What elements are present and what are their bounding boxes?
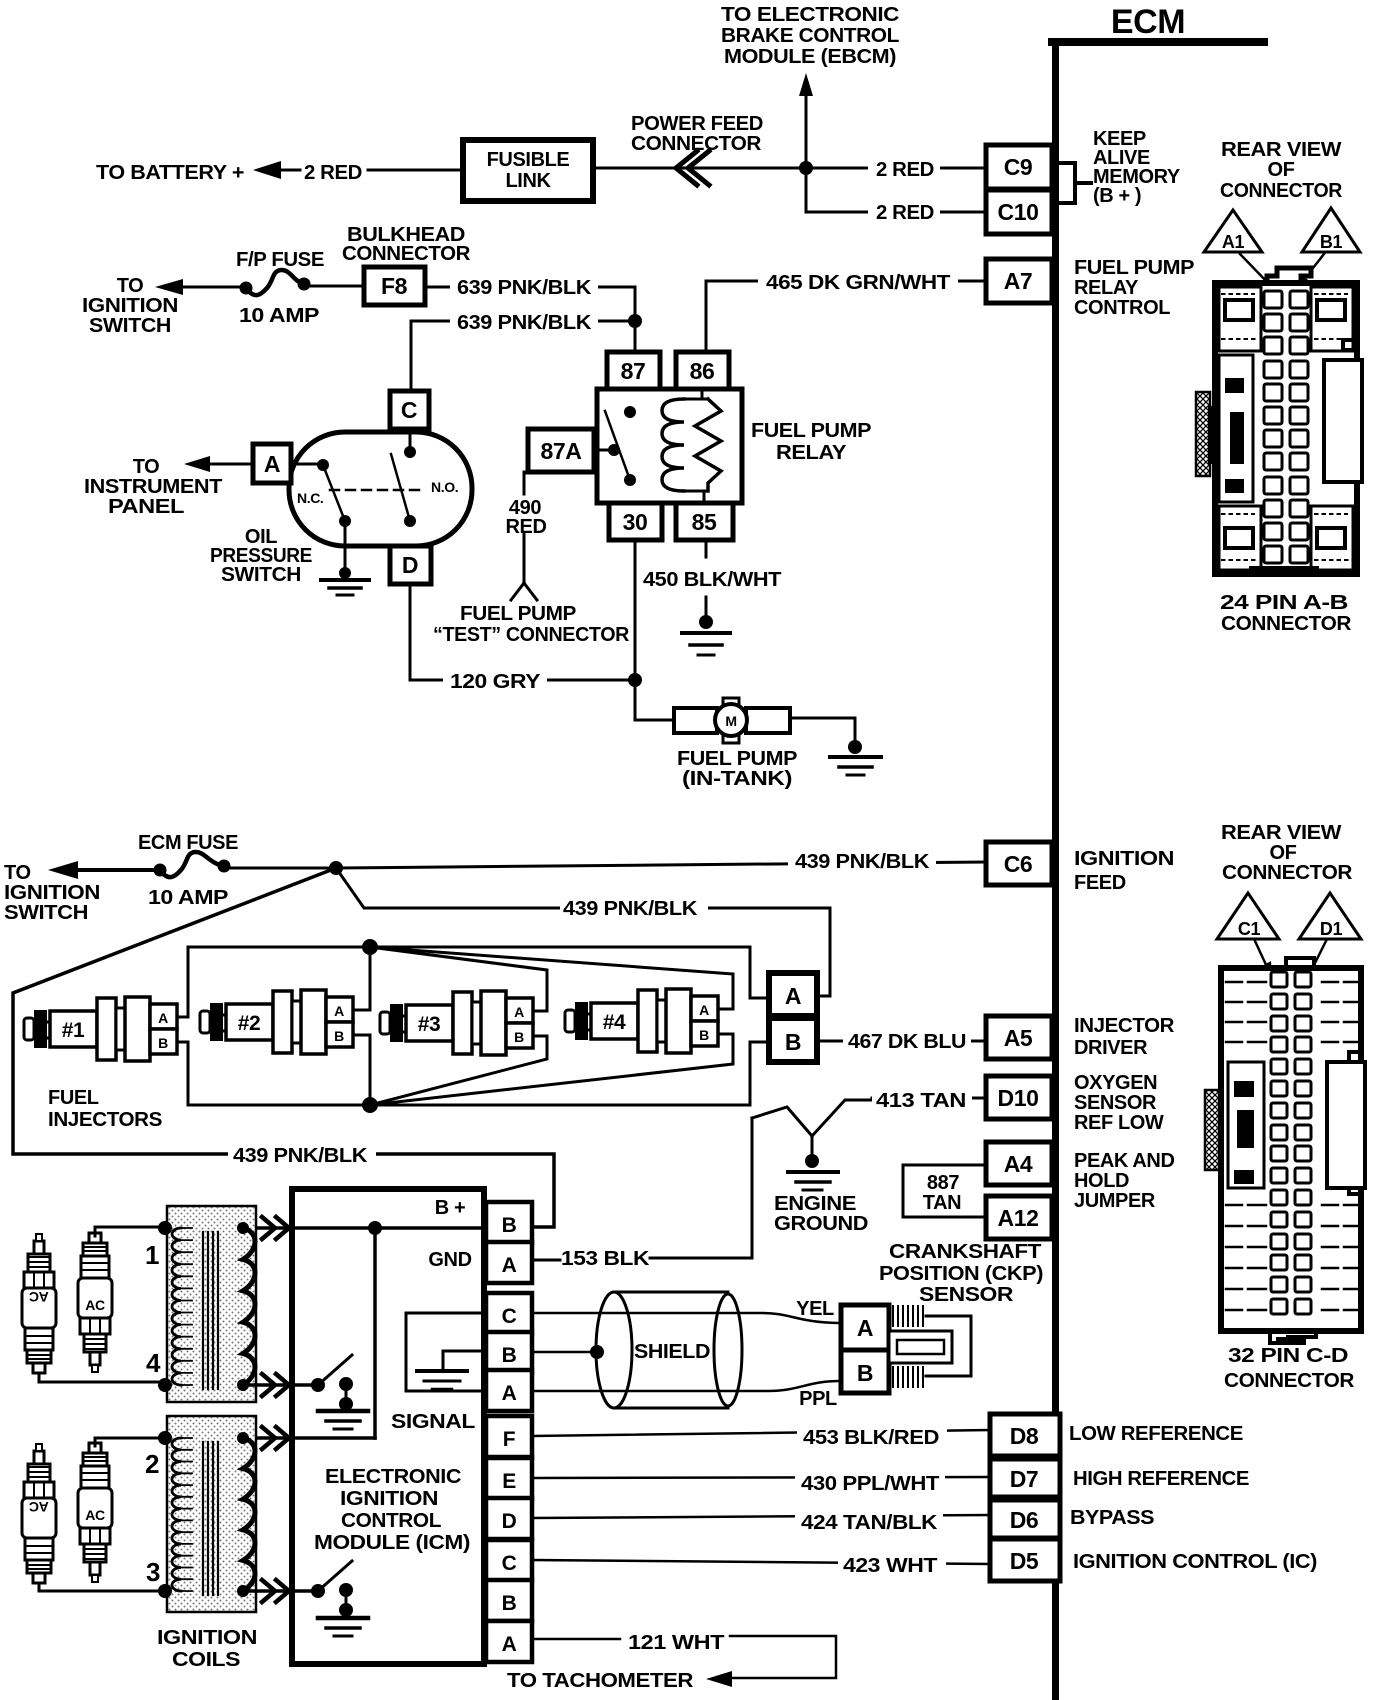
- label 423 WHT: [838, 1551, 946, 1575]
- svg-text:86: 86: [690, 358, 715, 384]
- injector #2: [200, 1011, 210, 1033]
- wire A row to CKP B (PPL): [532, 1381, 841, 1391]
- pin grid 24-pin: [1264, 291, 1282, 308]
- svg-text:121 WHT: 121 WHT: [628, 1632, 724, 1654]
- label 639 PNK/BLK lower: [450, 310, 598, 332]
- svg-text:413 TAN: 413 TAN: [876, 1090, 966, 1112]
- node injector A bus: [362, 939, 378, 955]
- svg-text:24 PIN A-B: 24 PIN A-B: [1220, 592, 1348, 614]
- ICM terminal E (1458): [486, 1458, 532, 1499]
- svg-text:A5: A5: [1004, 1025, 1033, 1051]
- triangle D1: [1299, 893, 1361, 939]
- ICM terminal A (1242): [486, 1242, 532, 1283]
- svg-text:BYPASS: BYPASS: [1070, 1507, 1154, 1529]
- svg-text:F8: F8: [381, 273, 408, 299]
- svg-text:IGNITION: IGNITION: [82, 295, 178, 317]
- fuel pump in-tank: [674, 708, 717, 733]
- svg-text:B: B: [334, 1028, 344, 1044]
- node power feed junction: [799, 161, 813, 175]
- svg-text:TAN: TAN: [923, 1192, 961, 1214]
- keep alive memory bracket: [1061, 163, 1091, 203]
- svg-text:RELAY: RELAY: [1074, 277, 1139, 299]
- node 639 junction: [628, 314, 642, 328]
- wire battery to fusible link: [368, 169, 463, 172]
- wire junction to injector A bus: [336, 868, 830, 996]
- svg-text:TO TACHOMETER: TO TACHOMETER: [507, 1670, 694, 1692]
- connector left key strip: [1228, 1062, 1264, 1188]
- wire D to D6: [532, 1515, 990, 1518]
- svg-text:ELECTRONIC: ELECTRONIC: [325, 1466, 461, 1488]
- wire signal C-A loop: [406, 1313, 486, 1391]
- ECM pin A5: [986, 1016, 1052, 1059]
- svg-text:CRANKSHAFT: CRANKSHAFT: [889, 1241, 1041, 1263]
- ground relay 85: [699, 615, 713, 629]
- svg-text:TO: TO: [133, 456, 160, 478]
- connector 24-pin body: [1267, 268, 1311, 283]
- svg-text:120 GRY: 120 GRY: [450, 671, 541, 693]
- node injector B bus: [362, 1097, 378, 1113]
- label 467 DK BLU: [843, 1029, 971, 1051]
- svg-text:SHIELD: SHIELD: [634, 1341, 710, 1363]
- wire junction down to relay 87: [634, 321, 637, 352]
- svg-text:D1: D1: [1320, 919, 1343, 939]
- svg-text:FUEL PUMP: FUEL PUMP: [1074, 257, 1194, 279]
- svg-text:FUSIBLE: FUSIBLE: [487, 149, 570, 171]
- svg-text:A: A: [264, 451, 280, 477]
- svg-text:GND: GND: [428, 1249, 471, 1271]
- svg-text:INSTRUMENT: INSTRUMENT: [84, 476, 222, 498]
- svg-text:FEED: FEED: [1074, 872, 1126, 894]
- label 2 RED to C9: [868, 157, 940, 178]
- connector left key strip: [1219, 355, 1253, 502]
- svg-text:450 BLK/WHT: 450 BLK/WHT: [643, 569, 781, 591]
- fuel pump relay body: [597, 389, 742, 503]
- ECM pin A12: [986, 1196, 1052, 1239]
- svg-text:IGNITION: IGNITION: [4, 882, 100, 904]
- svg-text:GROUND: GROUND: [774, 1213, 868, 1235]
- svg-text:CONNECTOR: CONNECTOR: [1222, 862, 1353, 884]
- terminal C: [390, 391, 429, 429]
- wire injector 3 B riser: [370, 1036, 547, 1105]
- ICM terminal C (1293): [486, 1293, 532, 1334]
- wire fuse to F8: [310, 285, 364, 288]
- wire coil2 bottom to driver2: [243, 1589, 318, 1593]
- svg-text:AC: AC: [29, 1499, 49, 1515]
- ECM trunk line: [1052, 38, 1059, 1700]
- chevron input 1385: [262, 1374, 289, 1396]
- ECM pin C6: [986, 842, 1052, 885]
- svg-text:30: 30: [623, 509, 648, 535]
- wire engine ground left branch: [752, 1107, 812, 1136]
- svg-text:HOLD: HOLD: [1074, 1170, 1129, 1192]
- wire plug2R to coil2 top: [95, 1438, 165, 1446]
- svg-text:ENGINE: ENGINE: [774, 1193, 856, 1215]
- svg-text:#2: #2: [238, 1012, 261, 1035]
- svg-text:MODULE (EBCM): MODULE (EBCM): [724, 46, 896, 68]
- svg-text:B +: B +: [435, 1197, 465, 1219]
- svg-text:SWITCH: SWITCH: [4, 902, 88, 924]
- svg-text:SWITCH: SWITCH: [89, 315, 171, 337]
- svg-text:TO BATTERY +: TO BATTERY +: [96, 162, 244, 184]
- wire 413 TAN to D10: [812, 1098, 986, 1136]
- svg-text:A: A: [785, 983, 801, 1009]
- arrow to battery: [253, 161, 281, 179]
- label 439 PNK/BLK to C6: [788, 849, 936, 871]
- svg-text:AC: AC: [85, 1507, 105, 1523]
- svg-text:#1: #1: [62, 1019, 85, 1042]
- arrow to ignition switch: [155, 279, 183, 295]
- svg-text:FUEL PUMP: FUEL PUMP: [460, 603, 576, 625]
- wire B common stub: [750, 1041, 769, 1044]
- svg-text:POWER FEED: POWER FEED: [631, 113, 763, 135]
- svg-text:2 RED: 2 RED: [876, 159, 934, 181]
- svg-text:AC: AC: [85, 1297, 105, 1313]
- ignition coil 1/4: [167, 1206, 256, 1402]
- injector #4: [565, 1010, 575, 1032]
- connector A common: [769, 973, 817, 1016]
- svg-text:D: D: [402, 552, 418, 578]
- svg-text:M: M: [725, 713, 736, 729]
- connector right latch: [1343, 340, 1357, 476]
- wire fusible link to ECM C9: [593, 167, 986, 170]
- svg-text:2: 2: [145, 1449, 159, 1479]
- svg-text:COILS: COILS: [172, 1649, 240, 1671]
- svg-text:A7: A7: [1004, 268, 1033, 294]
- svg-text:D8: D8: [1010, 1423, 1039, 1449]
- svg-text:C10: C10: [998, 199, 1039, 225]
- svg-text:A: A: [699, 1002, 709, 1018]
- svg-text:IGNITION: IGNITION: [157, 1627, 257, 1649]
- svg-text:C: C: [401, 397, 417, 423]
- svg-text:32 PIN C-D: 32 PIN C-D: [1228, 1345, 1348, 1367]
- svg-text:87A: 87A: [541, 438, 582, 464]
- wire A common stub: [750, 997, 769, 1000]
- svg-text:10 AMP: 10 AMP: [239, 305, 319, 327]
- spark plug 2 left (inverted): [22, 1444, 56, 1583]
- svg-text:CONNECTOR: CONNECTOR: [631, 133, 762, 155]
- svg-text:A: A: [857, 1315, 873, 1341]
- ICM terminal A (1370): [486, 1370, 532, 1411]
- ICM terminal F (1416): [486, 1416, 532, 1457]
- connector hatched tab: [1196, 392, 1210, 476]
- svg-text:10 AMP: 10 AMP: [148, 887, 228, 909]
- wire up to EBCM: [805, 93, 808, 168]
- svg-text:HIGH REFERENCE: HIGH REFERENCE: [1073, 1468, 1249, 1490]
- svg-text:PEAK AND: PEAK AND: [1074, 1150, 1175, 1172]
- arrow to ignition switch 2: [48, 861, 78, 879]
- svg-text:FUEL PUMP: FUEL PUMP: [751, 420, 871, 442]
- wire injector stubs: [177, 1009, 733, 1042]
- svg-text:E: E: [502, 1470, 516, 1493]
- svg-text:IGNITION: IGNITION: [1074, 848, 1174, 870]
- svg-text:SIGNAL: SIGNAL: [391, 1411, 475, 1433]
- svg-text:439 PNK/BLK: 439 PNK/BLK: [795, 851, 930, 873]
- svg-text:467 DK BLU: 467 DK BLU: [848, 1031, 966, 1053]
- svg-text:TO: TO: [4, 862, 31, 884]
- wire junction to C6: [336, 862, 986, 868]
- svg-text:POSITION (CKP): POSITION (CKP): [879, 1263, 1043, 1285]
- connector F8: [364, 267, 425, 305]
- connector B common: [769, 1018, 817, 1062]
- svg-text:A1: A1: [1222, 232, 1245, 252]
- CKP sensor body: [893, 1306, 923, 1326]
- svg-text:CONTROL: CONTROL: [1074, 297, 1170, 319]
- svg-text:C: C: [502, 1552, 517, 1575]
- relay contacts: [624, 406, 636, 418]
- ECM pin D5: [990, 1539, 1060, 1581]
- svg-text:SENSOR: SENSOR: [1074, 1092, 1157, 1114]
- svg-text:OF: OF: [1270, 842, 1297, 864]
- mechanical link dashes: [330, 489, 420, 492]
- svg-text:B: B: [699, 1027, 709, 1043]
- svg-text:CONNECTOR: CONNECTOR: [342, 243, 471, 265]
- svg-text:B: B: [502, 1592, 517, 1615]
- svg-text:B: B: [502, 1214, 517, 1237]
- ICM terminal B (1202): [486, 1202, 532, 1243]
- wire fuel pump to ground: [790, 718, 855, 745]
- wire injector 4 B riser: [370, 1034, 733, 1105]
- svg-text:#4: #4: [603, 1011, 626, 1034]
- svg-text:PPL: PPL: [799, 1388, 837, 1410]
- injector #3: [380, 1012, 390, 1034]
- svg-text:B1: B1: [1320, 232, 1343, 252]
- wire A bus risers: [369, 947, 372, 1105]
- wire plug2L to coil2 bottom: [39, 1584, 165, 1591]
- connector wing dashes bottom: [1226, 1205, 1358, 1310]
- relay terminal 85: [676, 503, 733, 540]
- svg-text:OXYGEN: OXYGEN: [1074, 1072, 1157, 1094]
- svg-text:CONNECTOR: CONNECTOR: [1220, 180, 1343, 202]
- wire A to tachometer: [532, 1636, 836, 1678]
- ICM terminal C (1540): [486, 1540, 532, 1581]
- label 439 PNK/BLK ICM: [228, 1142, 376, 1165]
- node ECM fuse junction: [329, 861, 343, 875]
- svg-text:DRIVER: DRIVER: [1074, 1037, 1148, 1059]
- ground oil pressure switch: [344, 527, 347, 573]
- fuse ECM: [154, 864, 167, 877]
- svg-text:ECM: ECM: [1111, 3, 1185, 41]
- svg-text:B: B: [785, 1029, 801, 1055]
- svg-text:4: 4: [146, 1348, 161, 1378]
- label 413 TAN: [872, 1088, 972, 1110]
- switch ICM driver 1: [287, 1384, 316, 1387]
- ground ICM driver 2: [318, 1616, 368, 1621]
- svg-text:REAR VIEW: REAR VIEW: [1221, 822, 1342, 844]
- svg-text:“TEST” CONNECTOR: “TEST” CONNECTOR: [433, 624, 630, 646]
- relay terminal 86: [676, 352, 729, 389]
- svg-text:CONNECTOR: CONNECTOR: [1224, 1370, 1355, 1392]
- svg-text:FUEL: FUEL: [48, 1087, 99, 1109]
- wire 887 TAN jumper: [903, 1165, 986, 1217]
- wire shield drain ground inside ICM: [443, 1351, 486, 1369]
- svg-text:D5: D5: [1010, 1548, 1039, 1574]
- svg-text:153 BLK: 153 BLK: [561, 1248, 650, 1270]
- svg-text:C1: C1: [1238, 919, 1261, 939]
- svg-text:INJECTOR: INJECTOR: [1074, 1015, 1175, 1037]
- svg-text:(IN-TANK): (IN-TANK): [682, 768, 792, 790]
- ECM pin A7: [986, 259, 1052, 303]
- label 439 PNK/BLK injectors: [560, 896, 708, 918]
- ICM terminal B (1580): [486, 1580, 532, 1621]
- svg-text:A12: A12: [998, 1205, 1039, 1231]
- relay terminal 87A: [528, 429, 594, 472]
- svg-text:INJECTORS: INJECTORS: [48, 1109, 162, 1131]
- label 639 PNK/BLK upper: [450, 275, 598, 297]
- wire 30 down to fuel pump: [635, 540, 674, 720]
- N.C. contact: [291, 463, 323, 466]
- label 120 GRY: [443, 669, 547, 691]
- wire B+ bus: [243, 1226, 486, 1230]
- svg-text:A: A: [514, 1004, 524, 1020]
- svg-text:BRAKE CONTROL: BRAKE CONTROL: [721, 25, 899, 47]
- connector wing dashes top: [1226, 982, 1358, 1042]
- ground ICM driver 1: [318, 1409, 368, 1414]
- ECM pin D8: [990, 1414, 1060, 1456]
- wire branch to C10: [806, 168, 986, 212]
- svg-text:LOW REFERENCE: LOW REFERENCE: [1069, 1423, 1243, 1445]
- svg-text:FUEL PUMP: FUEL PUMP: [677, 748, 797, 770]
- svg-text:CONNECTOR: CONNECTOR: [1221, 613, 1352, 635]
- arrow to instrument panel: [184, 456, 210, 472]
- svg-text:D10: D10: [998, 1085, 1039, 1111]
- ICM box: [292, 1189, 484, 1664]
- triangle A1: [1204, 210, 1262, 252]
- svg-text:MODULE (ICM): MODULE (ICM): [314, 1532, 470, 1554]
- svg-text:RELAY: RELAY: [776, 442, 847, 464]
- svg-text:F/P FUSE: F/P FUSE: [236, 249, 324, 271]
- svg-text:(B + ): (B + ): [1093, 185, 1141, 207]
- triangle B1: [1302, 208, 1360, 252]
- label 424 TAN/BLK: [795, 1505, 943, 1529]
- ECM pin C9: [986, 145, 1052, 189]
- svg-text:A: A: [158, 1010, 168, 1026]
- svg-text:F: F: [503, 1428, 516, 1451]
- svg-text:B: B: [514, 1029, 524, 1045]
- spark plug 2 right: [78, 1443, 112, 1582]
- wire B row shield drain: [532, 1351, 592, 1354]
- svg-text:C9: C9: [1004, 154, 1033, 180]
- svg-text:A: A: [334, 1003, 344, 1019]
- switch ICM driver 2: [287, 1590, 316, 1593]
- svg-text:423 WHT: 423 WHT: [843, 1555, 937, 1577]
- connector right latch: [1349, 1052, 1361, 1194]
- wire junction to ICM B+ trunk: [13, 868, 554, 1227]
- svg-text:JUMPER: JUMPER: [1074, 1190, 1156, 1212]
- svg-text:C6: C6: [1004, 851, 1033, 877]
- ECM pin C10: [986, 190, 1052, 234]
- wire D to 120 GRY row: [410, 584, 635, 680]
- svg-text:OF: OF: [1268, 159, 1295, 181]
- svg-text:ECM FUSE: ECM FUSE: [138, 832, 238, 854]
- chevron input 1228: [262, 1217, 289, 1239]
- ECM pin A4: [986, 1142, 1052, 1185]
- connector 32-pin body: [1286, 958, 1314, 970]
- wire 490 RED test connector: [511, 472, 537, 600]
- svg-text:87: 87: [621, 358, 646, 384]
- wire GND row to 153 BLK: [532, 1118, 752, 1260]
- svg-text:B: B: [857, 1360, 873, 1386]
- svg-text:IGNITION CONTROL (IC): IGNITION CONTROL (IC): [1073, 1551, 1317, 1573]
- wire C to D5: [532, 1560, 990, 1564]
- ICM terminal D (1498): [486, 1498, 532, 1539]
- svg-text:REF LOW: REF LOW: [1074, 1112, 1164, 1134]
- svg-text:3: 3: [146, 1557, 160, 1587]
- relay terminal 87: [607, 352, 660, 389]
- svg-text:465 DK GRN/WHT: 465 DK GRN/WHT: [766, 272, 950, 294]
- svg-text:A: A: [502, 1254, 517, 1277]
- svg-text:639 PNK/BLK: 639 PNK/BLK: [457, 277, 592, 299]
- ECM pin D10: [986, 1076, 1052, 1119]
- spark plug 1 right: [78, 1233, 112, 1372]
- terminal D: [390, 546, 431, 584]
- spark plug 1 left (inverted): [22, 1234, 56, 1373]
- svg-text:424 TAN/BLK: 424 TAN/BLK: [801, 1512, 938, 1534]
- svg-text:639 PNK/BLK: 639 PNK/BLK: [457, 312, 592, 334]
- svg-text:2 RED: 2 RED: [304, 162, 362, 184]
- svg-text:IGNITION: IGNITION: [340, 1488, 438, 1510]
- svg-text:D7: D7: [1010, 1466, 1039, 1492]
- connector bottom tab: [1270, 1331, 1316, 1343]
- wire 639 lower row: [411, 321, 635, 391]
- svg-text:#3: #3: [418, 1013, 441, 1036]
- wire F to D8: [532, 1430, 990, 1436]
- svg-text:SWITCH: SWITCH: [221, 564, 301, 586]
- N.O. contact: [409, 429, 412, 452]
- ground engine: [811, 1136, 814, 1158]
- wire fuse to junction: [230, 867, 336, 870]
- ECM pin D7: [990, 1459, 1060, 1497]
- label 465 DK GRN/WHT: [758, 270, 958, 292]
- svg-text:RED: RED: [505, 516, 546, 538]
- wire 85 to ground: [705, 540, 708, 618]
- ICM terminal A (1621): [486, 1621, 532, 1662]
- ECM pin D6: [990, 1500, 1060, 1538]
- label 2 RED to C10: [868, 201, 940, 222]
- ECM top bar: [1048, 38, 1268, 46]
- svg-text:AC: AC: [29, 1289, 49, 1305]
- svg-text:N.C.: N.C.: [297, 490, 323, 506]
- ICM terminal B (1332): [486, 1332, 532, 1373]
- svg-text:430 PPL/WHT: 430 PPL/WHT: [801, 1473, 939, 1495]
- pin grid 32-pin: [1271, 972, 1287, 987]
- svg-text:SENSOR: SENSOR: [919, 1284, 1014, 1306]
- oil pressure switch body: [289, 432, 472, 546]
- svg-text:CONTROL: CONTROL: [341, 1510, 441, 1532]
- svg-text:PANEL: PANEL: [108, 496, 184, 518]
- shielded cable: [614, 1292, 728, 1408]
- power feed connector chevrons: [676, 151, 709, 185]
- connector corner blocks: [1219, 287, 1261, 351]
- chevron input 1438: [262, 1427, 289, 1449]
- wire injector 3 A riser: [370, 947, 547, 1011]
- wire B common to A5: [817, 1040, 986, 1043]
- wire injector 4 A riser: [370, 947, 733, 1009]
- svg-text:N.O.: N.O.: [431, 479, 458, 495]
- svg-text:C: C: [502, 1305, 517, 1328]
- relay terminal 30: [609, 503, 662, 540]
- svg-text:YEL: YEL: [796, 1298, 834, 1320]
- svg-text:2 RED: 2 RED: [876, 202, 934, 224]
- svg-text:B: B: [502, 1344, 517, 1367]
- svg-text:453 BLK/RED: 453 BLK/RED: [803, 1427, 939, 1449]
- arrow to tachometer: [706, 1671, 732, 1687]
- label 453 BLK/RED: [797, 1419, 947, 1443]
- injector bus frame: [188, 947, 750, 1105]
- svg-text:439 PNK/BLK: 439 PNK/BLK: [563, 898, 698, 920]
- fusible link F1: [463, 140, 593, 201]
- connector bottom bar: [1249, 566, 1319, 576]
- svg-text:LINK: LINK: [505, 170, 551, 192]
